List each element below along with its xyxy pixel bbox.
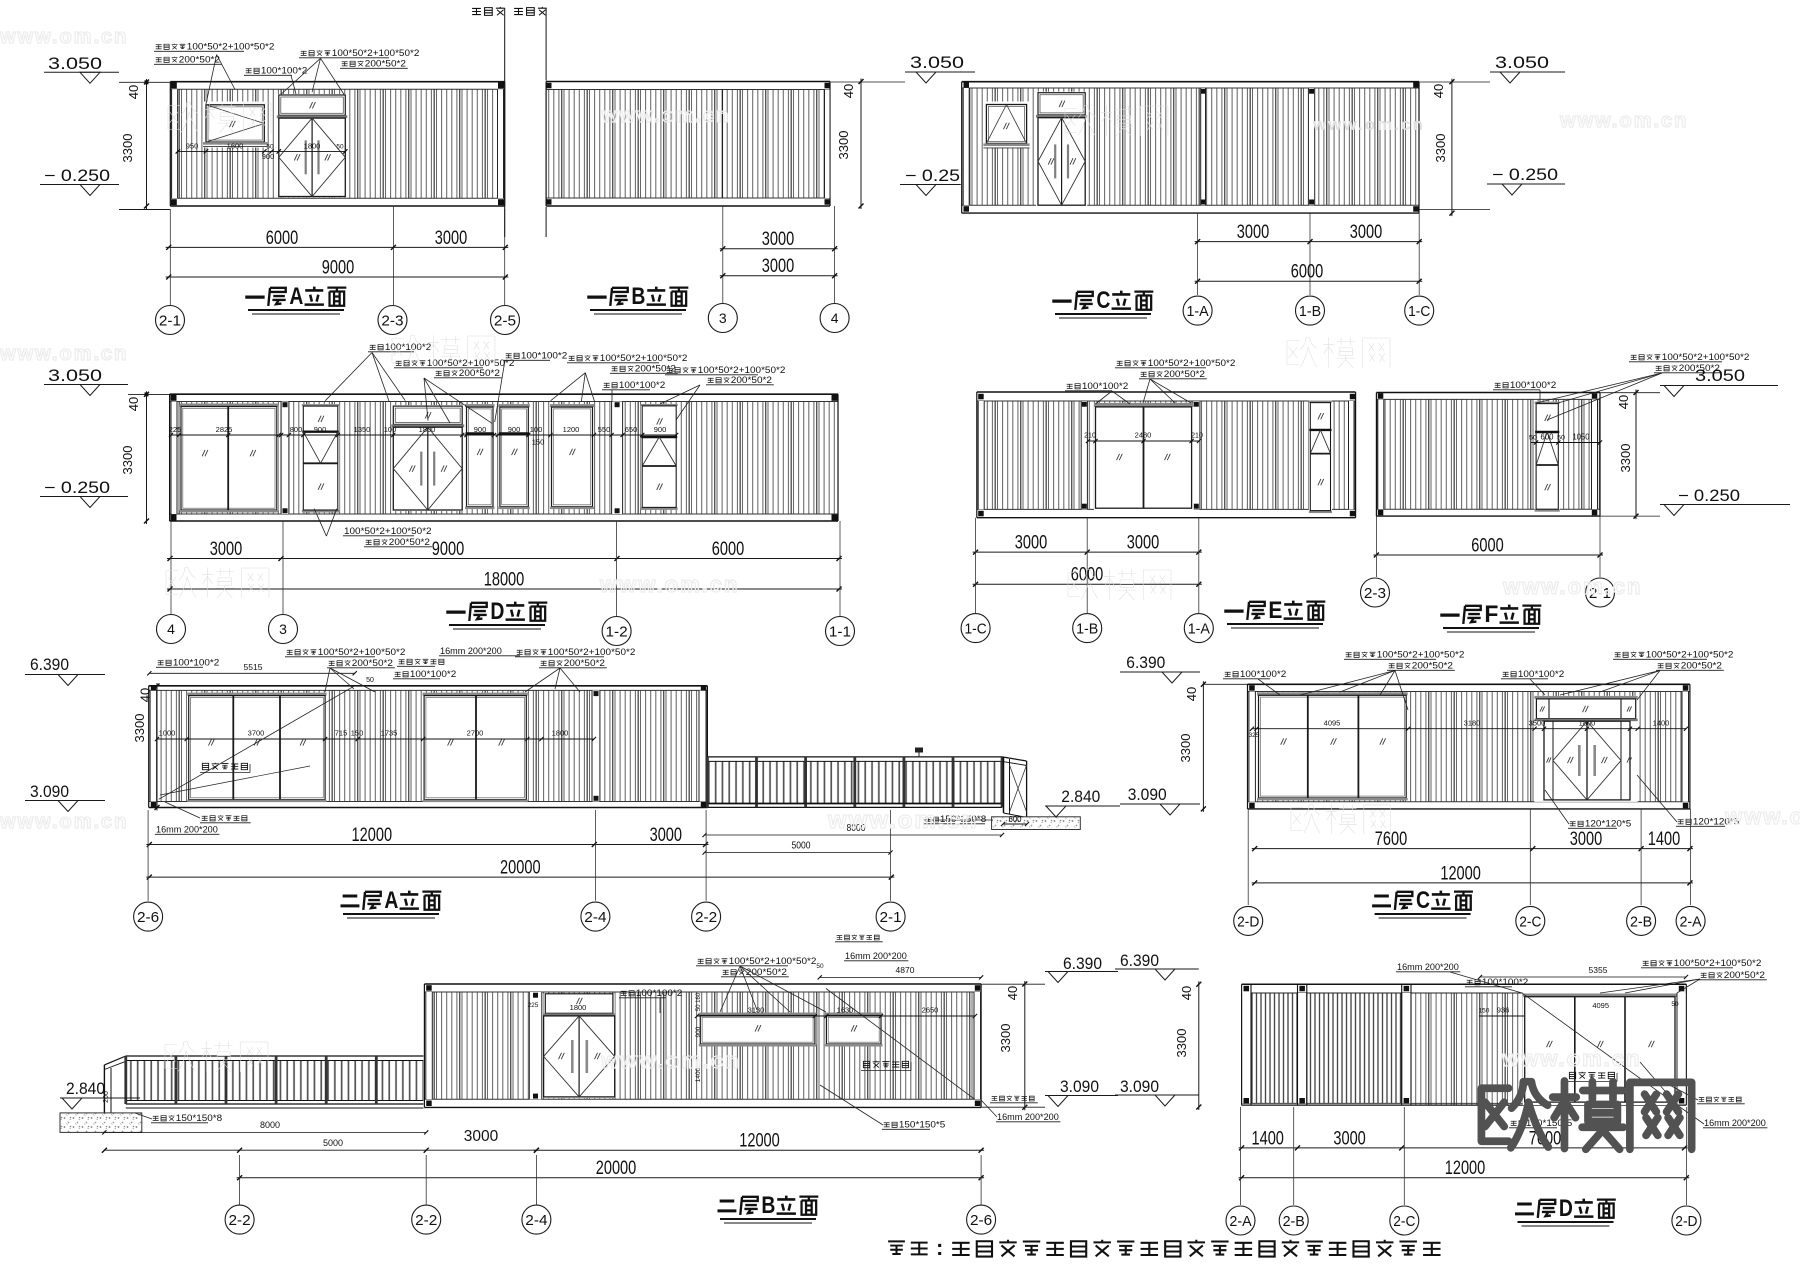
svg-text:www.om.cn: www.om.cn — [601, 105, 730, 127]
svg-text:150: 150 — [532, 438, 545, 447]
svg-text:3.090: 3.090 — [1128, 786, 1167, 804]
svg-text:2-3: 2-3 — [381, 312, 403, 329]
svg-text:B: B — [761, 1192, 775, 1219]
svg-text:A: A — [289, 283, 303, 310]
svg-text:225: 225 — [169, 425, 182, 434]
svg-text:210: 210 — [1084, 433, 1096, 440]
svg-text:2-5: 2-5 — [494, 312, 516, 329]
svg-text:2480: 2480 — [1135, 431, 1152, 440]
svg-text:3000: 3000 — [1237, 222, 1269, 243]
svg-text:1-2: 1-2 — [606, 623, 628, 640]
svg-text:www.om.cn: www.om.cn — [1312, 115, 1425, 134]
svg-text:2-4: 2-4 — [525, 1212, 547, 1229]
svg-text:5000: 5000 — [323, 1138, 343, 1148]
svg-text:3000: 3000 — [762, 256, 794, 277]
svg-text:3000: 3000 — [762, 229, 794, 250]
svg-text:www.om.cn: www.om.cn — [1559, 110, 1688, 132]
svg-text:600: 600 — [1541, 433, 1555, 442]
svg-text:9000: 9000 — [432, 539, 464, 560]
svg-text:1-1: 1-1 — [829, 623, 851, 640]
svg-text:600: 600 — [1009, 815, 1023, 824]
svg-text:18000: 18000 — [484, 570, 525, 591]
svg-text:1-A: 1-A — [1187, 303, 1209, 320]
svg-text:50: 50 — [1671, 1001, 1679, 1008]
svg-text:3300: 3300 — [1178, 734, 1193, 763]
svg-text:www.om.cn: www.om.cn — [1501, 1046, 1641, 1071]
svg-text:3000: 3000 — [1127, 533, 1159, 554]
svg-text:40: 40 — [126, 85, 141, 99]
svg-text:2650: 2650 — [922, 1006, 939, 1015]
svg-text:3300: 3300 — [998, 1024, 1013, 1053]
svg-text:3.090: 3.090 — [1120, 1078, 1159, 1096]
svg-text:3300: 3300 — [120, 446, 135, 475]
svg-text:3300: 3300 — [1174, 1029, 1189, 1058]
svg-text:A: A — [384, 887, 398, 914]
svg-text:1000: 1000 — [159, 729, 176, 738]
svg-text:325: 325 — [1249, 732, 1260, 739]
svg-text:936: 936 — [1497, 1006, 1510, 1015]
svg-text:50: 50 — [1557, 435, 1565, 442]
svg-text:20000: 20000 — [596, 1158, 637, 1179]
svg-text:− 0.250: − 0.250 — [1492, 166, 1558, 184]
svg-text:2-C: 2-C — [1393, 1213, 1415, 1230]
svg-text:3.050: 3.050 — [1695, 367, 1745, 385]
svg-text:1800: 1800 — [552, 729, 569, 738]
svg-text:6000: 6000 — [1291, 262, 1323, 283]
svg-text:2700: 2700 — [467, 729, 484, 738]
svg-text:2-2: 2-2 — [695, 909, 717, 926]
svg-text:100*100*2: 100*100*2 — [261, 66, 307, 77]
svg-text:1735: 1735 — [381, 729, 398, 738]
svg-text:1-C: 1-C — [965, 621, 987, 638]
svg-text:2-2: 2-2 — [229, 1212, 251, 1229]
svg-text:F: F — [1484, 601, 1498, 628]
svg-text:www.om.cn: www.om.cn — [1502, 574, 1642, 599]
svg-text:3000: 3000 — [210, 539, 242, 560]
svg-text:3.050: 3.050 — [910, 54, 964, 72]
svg-text:2-6: 2-6 — [137, 909, 159, 926]
svg-text:225: 225 — [528, 1002, 539, 1009]
svg-text:6000: 6000 — [1471, 536, 1503, 557]
svg-text:1400: 1400 — [1648, 829, 1680, 850]
svg-text:2-1: 2-1 — [880, 909, 902, 926]
svg-text:2.840: 2.840 — [66, 1080, 105, 1098]
svg-text:www.om.cn: www.om.cn — [600, 1048, 740, 1073]
svg-text:40: 40 — [1616, 395, 1631, 409]
svg-text:E: E — [1268, 597, 1282, 624]
svg-text:9000: 9000 — [322, 258, 354, 279]
svg-text:800: 800 — [290, 425, 303, 434]
svg-text:12000: 12000 — [1445, 1158, 1486, 1179]
svg-text:900: 900 — [508, 425, 521, 434]
svg-text:150: 150 — [351, 729, 364, 738]
svg-text:B: B — [631, 283, 645, 310]
svg-text:50: 50 — [1529, 435, 1537, 442]
svg-text:50 160: 50 160 — [696, 992, 702, 1011]
svg-text:2-6: 2-6 — [970, 1212, 992, 1229]
svg-text:210: 210 — [1191, 433, 1203, 440]
svg-text:6.390: 6.390 — [30, 656, 69, 674]
svg-text:40: 40 — [1005, 986, 1020, 1000]
svg-text:3300: 3300 — [1433, 134, 1448, 163]
svg-text:1-C: 1-C — [1408, 303, 1430, 320]
svg-text:1400: 1400 — [1653, 719, 1670, 728]
svg-text:40: 40 — [1179, 986, 1194, 1000]
svg-text:3000: 3000 — [464, 1128, 499, 1145]
svg-text:1-A: 1-A — [1188, 621, 1210, 638]
svg-text:3300: 3300 — [120, 134, 135, 163]
svg-text:3700: 3700 — [248, 729, 265, 738]
svg-text:3180: 3180 — [1464, 719, 1481, 728]
svg-text:3.050: 3.050 — [48, 55, 102, 73]
svg-text:3: 3 — [279, 621, 287, 637]
svg-text:6.390: 6.390 — [1126, 654, 1165, 672]
svg-text:900: 900 — [314, 425, 327, 434]
svg-text:− 0.250: − 0.250 — [44, 167, 110, 185]
svg-text:3000: 3000 — [1350, 222, 1382, 243]
svg-text:550: 550 — [598, 425, 611, 434]
svg-text:www.om.cn: www.om.cn — [599, 572, 739, 597]
svg-text:40: 40 — [1431, 84, 1446, 98]
svg-text:4: 4 — [167, 621, 175, 637]
svg-text:16mm 200*200: 16mm 200*200 — [1704, 1118, 1766, 1129]
svg-text:www.om.cn: www.om.cn — [0, 811, 128, 833]
svg-text:3000: 3000 — [1570, 829, 1602, 850]
svg-text:C: C — [1416, 887, 1430, 914]
svg-text:2.840: 2.840 — [1061, 788, 1100, 806]
svg-text:2-A: 2-A — [1229, 1213, 1251, 1230]
svg-text:3.050: 3.050 — [1495, 54, 1549, 72]
svg-text:4: 4 — [831, 310, 839, 326]
svg-text:1600: 1600 — [227, 142, 244, 151]
svg-text:6000: 6000 — [266, 228, 298, 249]
svg-text:40: 40 — [126, 397, 141, 411]
svg-text:4095: 4095 — [1592, 1001, 1609, 1010]
svg-text:950: 950 — [186, 142, 199, 151]
svg-text:D: D — [490, 598, 504, 625]
svg-text:900: 900 — [474, 425, 487, 434]
svg-text:3: 3 — [719, 310, 727, 326]
svg-text:1400: 1400 — [1252, 1128, 1284, 1149]
svg-text:3000: 3000 — [1015, 533, 1047, 554]
svg-text:www.om.cn: www.om.cn — [827, 807, 978, 834]
svg-text:6.390: 6.390 — [1063, 955, 1102, 973]
svg-text:900: 900 — [262, 152, 275, 161]
svg-text:3000: 3000 — [1333, 1128, 1365, 1149]
svg-text:1800: 1800 — [1579, 719, 1596, 728]
svg-text:50: 50 — [816, 963, 824, 970]
svg-text:3000: 3000 — [435, 228, 467, 249]
svg-text:715: 715 — [335, 729, 348, 738]
svg-text:150*150*5: 150*150*5 — [899, 1120, 945, 1131]
svg-text:12000: 12000 — [739, 1131, 780, 1152]
svg-text:2-D: 2-D — [1675, 1213, 1697, 1230]
svg-text:1800: 1800 — [304, 142, 321, 151]
svg-text:5355: 5355 — [1589, 965, 1608, 975]
svg-text:100: 100 — [384, 425, 397, 434]
svg-text:2-2: 2-2 — [415, 1212, 437, 1229]
svg-text:− 0.250: − 0.250 — [1678, 487, 1740, 505]
svg-text:www.om.cn: www.om.cn — [0, 26, 128, 48]
svg-text:C: C — [1096, 287, 1110, 314]
svg-text:3300: 3300 — [836, 131, 851, 160]
svg-text:650: 650 — [625, 425, 638, 434]
svg-text:www.om.cn: www.om.cn — [1724, 804, 1800, 829]
svg-text:3300: 3300 — [1618, 444, 1633, 473]
svg-text:2825: 2825 — [216, 425, 233, 434]
svg-text:900: 900 — [695, 1026, 702, 1037]
svg-text:5515: 5515 — [244, 662, 263, 672]
svg-text:5000: 5000 — [792, 840, 811, 852]
svg-text:1350: 1350 — [354, 425, 371, 434]
svg-text:200*50*2: 200*50*2 — [365, 59, 406, 70]
svg-text:1-B: 1-B — [1299, 303, 1321, 320]
svg-text:3.050: 3.050 — [48, 367, 102, 385]
svg-text:3.090: 3.090 — [1060, 1078, 1099, 1096]
svg-text:2-D: 2-D — [1237, 913, 1259, 930]
svg-text:1200: 1200 — [563, 425, 580, 434]
svg-text:1800: 1800 — [570, 1003, 587, 1012]
svg-text:200*50*2: 200*50*2 — [179, 55, 220, 66]
svg-text:6.390: 6.390 — [1120, 952, 1159, 970]
svg-text:1-B: 1-B — [1076, 621, 1098, 638]
svg-text:4870: 4870 — [896, 965, 915, 975]
svg-text:50: 50 — [366, 677, 374, 684]
svg-text:20000: 20000 — [500, 858, 541, 879]
svg-text::: : — [936, 1235, 943, 1260]
svg-text:2-3: 2-3 — [1364, 585, 1386, 602]
svg-text:100: 100 — [530, 425, 543, 434]
svg-text:12000: 12000 — [1440, 863, 1481, 884]
svg-text:150: 150 — [1479, 1008, 1490, 1015]
svg-text:50: 50 — [266, 144, 274, 151]
svg-text:D: D — [1559, 1195, 1573, 1222]
svg-text:12000: 12000 — [352, 825, 393, 846]
svg-text:3000: 3000 — [650, 825, 682, 846]
svg-text:40: 40 — [841, 84, 856, 98]
svg-text:3.090: 3.090 — [30, 783, 69, 801]
svg-text:4095: 4095 — [1324, 719, 1341, 728]
svg-text:2-4: 2-4 — [584, 909, 606, 926]
svg-text:3300: 3300 — [132, 714, 147, 743]
svg-text:2-A: 2-A — [1680, 913, 1702, 930]
svg-text:2-1: 2-1 — [159, 312, 181, 329]
svg-text:150*150*8: 150*150*8 — [176, 1113, 222, 1124]
svg-text:2-B: 2-B — [1283, 1213, 1305, 1230]
svg-text:2-C: 2-C — [1519, 913, 1541, 930]
svg-text:8000: 8000 — [260, 1120, 280, 1130]
svg-text:6000: 6000 — [712, 539, 744, 560]
svg-text:3500: 3500 — [1529, 719, 1546, 728]
svg-text:50: 50 — [336, 144, 344, 151]
svg-text:− 0.250: − 0.250 — [44, 479, 110, 497]
svg-text:16mm 200*200: 16mm 200*200 — [997, 1112, 1059, 1123]
svg-text:900: 900 — [654, 425, 667, 434]
svg-text:www.om.cn: www.om.cn — [0, 343, 128, 365]
svg-text:40: 40 — [138, 688, 153, 702]
svg-text:40: 40 — [1184, 687, 1199, 701]
svg-text:1050: 1050 — [1573, 432, 1590, 442]
svg-text:2-B: 2-B — [1630, 913, 1652, 930]
svg-text:1800: 1800 — [419, 425, 436, 434]
